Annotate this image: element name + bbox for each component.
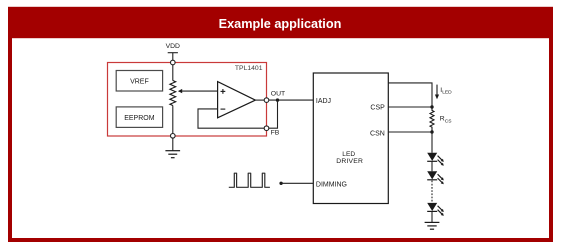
block VREF: [116, 71, 162, 92]
pin FB: [264, 126, 269, 131]
wire LED driver supply to LED bus: [388, 83, 432, 107]
op-amp U1: [218, 82, 256, 118]
wire CSP: [388, 106, 432, 108]
svg-text:VDD: VDD: [166, 43, 180, 50]
wire inverting feedback: [198, 109, 264, 128]
wire to DIMMING pin: [281, 182, 313, 184]
wire CSN node to LED D1: [431, 132, 433, 153]
wire potentiometer to GND pin: [172, 107, 174, 134]
node DIMMING input dot: [279, 182, 282, 185]
dimming waveform: [229, 173, 270, 187]
svg-text:EEPROM: EEPROM: [124, 115, 155, 122]
current arrow ILED: [435, 85, 439, 100]
block LED driver: [313, 73, 388, 204]
power VDD: [168, 53, 178, 61]
LED D3: [427, 203, 444, 216]
junction CSP node: [430, 105, 433, 108]
wire D1 to D2: [431, 161, 433, 171]
potentiometer R1: [170, 81, 176, 107]
LED D2: [427, 171, 444, 184]
block EEPROM: [116, 107, 162, 128]
junction CSN node: [430, 130, 433, 133]
wire VDD pin to potentiometer: [172, 65, 174, 81]
svg-text:OUT: OUT: [271, 90, 285, 97]
svg-text:CSP: CSP: [370, 104, 385, 111]
wire op-amp output to OUT pin: [255, 99, 264, 101]
wiper arrow to op-amp non-inverting input: [178, 89, 218, 93]
pin GND of TPL1401: [171, 134, 176, 139]
ground right: [425, 222, 440, 229]
ground left: [165, 151, 180, 158]
svg-text:CSN: CSN: [370, 130, 385, 137]
wire CSN: [388, 131, 432, 133]
wire D3 to ground: [431, 211, 433, 222]
TPL1401 boundary box: [108, 63, 267, 137]
pin VDD of TPL1401: [171, 60, 176, 65]
LED D1: [427, 153, 444, 166]
svg-text:LED: LED: [342, 151, 355, 158]
wire GND pin to ground: [172, 138, 174, 151]
pin OUT: [264, 98, 269, 103]
wire OUT to IADJ: [269, 99, 314, 101]
wire D2 to D3 dashed: [431, 181, 433, 203]
svg-text:DIMMING: DIMMING: [316, 182, 347, 189]
resistor RCS: [430, 107, 434, 132]
svg-text:Example application: Example application: [219, 17, 342, 31]
svg-text:IADJ: IADJ: [316, 98, 331, 105]
wire OUT node to FB pin: [269, 100, 278, 128]
svg-text:DRIVER: DRIVER: [336, 158, 363, 165]
svg-text:VREF: VREF: [130, 78, 149, 85]
junction OUT node: [276, 98, 279, 101]
svg-text:FB: FB: [271, 130, 280, 137]
svg-text:TPL1401: TPL1401: [235, 65, 263, 72]
